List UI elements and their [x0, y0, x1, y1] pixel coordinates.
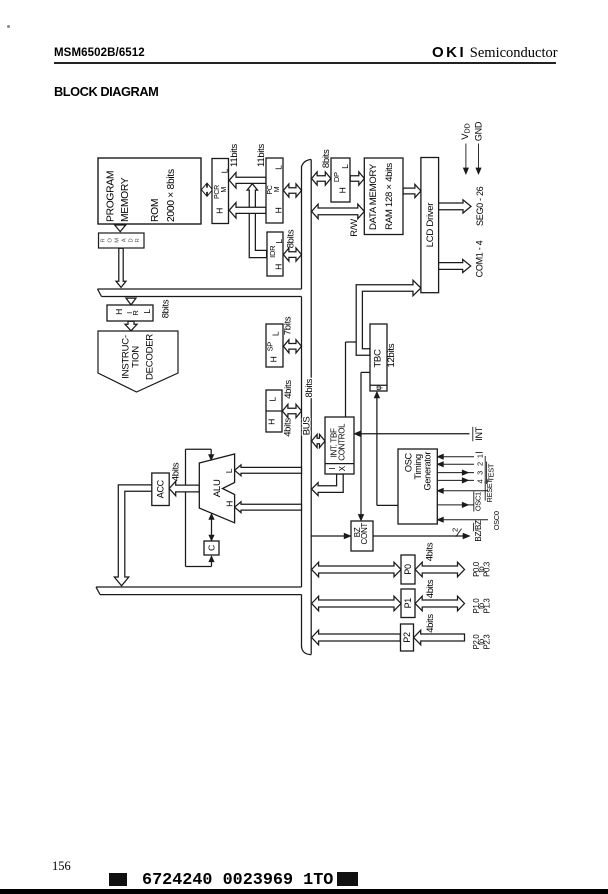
svg-text:ROM: ROM — [150, 199, 161, 222]
svg-text:TBC: TBC — [373, 349, 384, 368]
svg-text:4bits: 4bits — [171, 462, 182, 481]
svg-text:4bits: 4bits — [425, 542, 436, 561]
svg-text:P2: P2 — [402, 632, 412, 643]
svg-text:4bits: 4bits — [425, 579, 436, 598]
svg-text:H: H — [274, 264, 284, 270]
svg-text:I: I — [328, 468, 337, 470]
svg-text:M: M — [221, 187, 228, 193]
svg-text:L: L — [267, 397, 277, 402]
svg-text:L: L — [142, 309, 152, 314]
svg-text:ACC: ACC — [156, 479, 166, 498]
svg-text:PROGRAM: PROGRAM — [106, 171, 117, 222]
svg-text:Timing: Timing — [413, 454, 423, 480]
svg-text:4bits: 4bits — [282, 418, 293, 437]
svg-text:IDR: IDR — [268, 245, 277, 258]
svg-text:11bits: 11bits — [229, 144, 240, 167]
svg-text:M: M — [274, 186, 281, 192]
svg-text:P1: P1 — [403, 598, 413, 609]
svg-text:H: H — [269, 356, 279, 362]
svg-text:R: R — [135, 238, 141, 242]
svg-text:P0: P0 — [403, 564, 413, 575]
svg-text:SEG0 - 26: SEG0 - 26 — [475, 186, 485, 226]
svg-text:LCD Driver: LCD Driver — [425, 202, 436, 248]
svg-text:COM1 - 4: COM1 - 4 — [475, 240, 485, 277]
svg-text:MEMORY: MEMORY — [120, 177, 131, 222]
svg-text:L: L — [220, 168, 230, 173]
svg-text:4bits: 4bits — [283, 380, 294, 399]
svg-text:DECODER: DECODER — [144, 334, 155, 380]
svg-text:1: 1 — [475, 454, 484, 458]
svg-text:RESET: RESET — [485, 479, 494, 503]
svg-text:M: M — [115, 238, 121, 243]
svg-text:TEST: TEST — [487, 463, 496, 481]
svg-text:L: L — [274, 165, 284, 170]
svg-text:A: A — [121, 238, 127, 242]
svg-text:RAM 128 × 4bits: RAM 128 × 4bits — [384, 163, 395, 230]
svg-text:DP: DP — [332, 172, 341, 182]
svg-text:2: 2 — [475, 462, 484, 466]
svg-text:DATA MEMORY: DATA MEMORY — [368, 163, 379, 230]
svg-text:H: H — [273, 207, 283, 213]
svg-text:L: L — [340, 164, 350, 169]
svg-text:8bits: 8bits — [285, 229, 296, 248]
svg-text:L: L — [274, 239, 284, 244]
svg-text:D: D — [128, 238, 134, 242]
svg-text:H: H — [338, 187, 348, 193]
svg-text:C: C — [207, 545, 217, 551]
svg-text:4: 4 — [475, 479, 484, 483]
svg-text:H: H — [114, 309, 124, 315]
svg-text:OSC0: OSC0 — [492, 511, 501, 530]
svg-text:INT: INT — [474, 426, 484, 440]
svg-text:H: H — [267, 419, 277, 425]
svg-text:7bits: 7bits — [283, 316, 294, 335]
svg-text:Generator: Generator — [422, 452, 432, 491]
svg-text:P1.3: P1.3 — [482, 599, 491, 614]
svg-text:CONTROL: CONTROL — [337, 423, 346, 461]
svg-text:L: L — [270, 331, 280, 336]
svg-text:φ: φ — [374, 385, 383, 390]
svg-text:8bits: 8bits — [304, 378, 315, 397]
svg-text:R: R — [101, 238, 107, 242]
svg-text:R: R — [131, 310, 140, 316]
svg-text:P0.3: P0.3 — [482, 562, 491, 577]
svg-text:8bits: 8bits — [161, 299, 172, 318]
svg-text:12bits: 12bits — [386, 343, 397, 367]
svg-text:VDD: VDD — [460, 123, 471, 139]
svg-text:BZ/BZ: BZ/BZ — [474, 520, 483, 542]
svg-text:BUS: BUS — [302, 417, 313, 436]
svg-text:8bits: 8bits — [321, 149, 332, 168]
svg-text:2: 2 — [451, 528, 460, 532]
svg-text:GND: GND — [473, 121, 483, 141]
svg-text:4bits: 4bits — [425, 614, 436, 633]
svg-text:P2.3: P2.3 — [482, 635, 491, 650]
svg-text:H: H — [214, 208, 224, 214]
svg-text:3: 3 — [475, 471, 484, 475]
svg-text:ALU: ALU — [212, 479, 223, 497]
svg-text:SP: SP — [266, 342, 275, 352]
svg-text:H: H — [225, 501, 235, 507]
svg-text:L: L — [224, 468, 234, 473]
svg-text:R/W: R/W — [349, 219, 360, 237]
svg-text:OSC1: OSC1 — [474, 492, 483, 511]
svg-text:11bits: 11bits — [256, 144, 267, 167]
svg-text:PC: PC — [267, 185, 274, 194]
svg-text:TION: TION — [131, 346, 142, 368]
svg-text:CONT: CONT — [360, 523, 369, 545]
svg-text:2000 × 8bits: 2000 × 8bits — [166, 169, 177, 222]
svg-text:PCR: PCR — [214, 185, 221, 199]
